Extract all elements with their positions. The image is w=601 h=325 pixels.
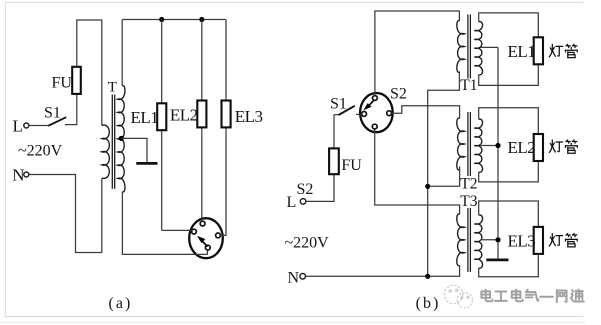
transformer T1 core [467, 15, 469, 79]
ground bar (a) [136, 162, 157, 165]
junction dot T2-bottom (b) [425, 184, 430, 189]
selector contact left (a) [192, 229, 197, 234]
wire T3 secondary bottom to EL3 [479, 254, 539, 277]
wire blade to selector left contact (b) [356, 113, 362, 115]
wire N to T primary bottom (a) [29, 175, 102, 253]
svg-text:N: N [12, 166, 24, 185]
svg-text:T3: T3 [460, 193, 477, 210]
svg-text:(a): (a) [109, 295, 133, 312]
lamp EL1 (b) [534, 37, 543, 64]
junction dot tap T3 (b) [495, 237, 500, 242]
svg-text:FU: FU [52, 75, 73, 92]
junction dot tap T2 (b) [495, 143, 500, 148]
svg-text:EL3: EL3 [235, 107, 263, 126]
transformer T3 core [467, 208, 469, 272]
node L (a) [24, 123, 29, 128]
svg-text:EL2: EL2 [170, 106, 198, 125]
svg-text:FU: FU [341, 157, 362, 174]
svg-text:EL1: EL1 [508, 42, 536, 61]
svg-text:T2: T2 [460, 175, 477, 192]
rotary selector switch SA (b) [360, 93, 393, 132]
wire S1 to FU (a) [65, 20, 102, 125]
lamp EL3 (b) [534, 227, 543, 254]
selector contact left (b) [362, 112, 367, 117]
node N (a) [24, 172, 29, 177]
switch S1 blade (b) [334, 114, 339, 116]
wire T1 secondary tap (b) [481, 46, 499, 48]
selector contact top (b) [373, 96, 378, 101]
wire stubs into selector (b) [374, 93, 376, 96]
svg-text:EL1: EL1 [131, 108, 159, 127]
wire N to T3 primary bottom (b) [306, 265, 460, 276]
fuse FU (a) [72, 67, 81, 94]
switch S1 blade (a) [48, 117, 66, 126]
wire tap to ground (a) [121, 138, 147, 162]
svg-text:~220V: ~220V [18, 143, 63, 160]
selector contact bottom (b) [372, 124, 377, 129]
rotary selector switch SA (a) [189, 218, 223, 258]
wire through fuse + to S1 (b) [333, 115, 335, 175]
wire T1 secondary bottom to EL1 [479, 64, 539, 85]
junction dot bus-EL2 (a) [199, 17, 204, 22]
wire EL1 bottom to selector left contact (a) [162, 229, 192, 231]
transformer T1 primary winding [457, 21, 465, 73]
wire T2 primary bottom to junction (b) [428, 167, 460, 187]
transformer T2 core [467, 112, 469, 176]
wire selector top contact to T1 primary (b) [375, 11, 460, 96]
label lamp-tube EL2 (b) [549, 140, 562, 153]
svg-text:L: L [287, 194, 297, 211]
wire T3 secondary tap (b) [481, 239, 499, 241]
svg-text:S2: S2 [390, 86, 407, 103]
secondary tap dot (a) [119, 136, 124, 141]
svg-text:L: L [13, 117, 23, 136]
junction dot bus-EL1 (a) [159, 17, 164, 22]
wire EL2 riser (a) [201, 20, 203, 222]
transformer T2 primary winding [457, 118, 465, 170]
svg-text:T: T [108, 80, 117, 96]
wire selector right contact (S2) to T2 primary (b) [392, 106, 460, 119]
wire T2 secondary top to EL2 [479, 108, 539, 134]
wire T3 secondary top to EL3 [479, 201, 539, 227]
ground bar (b) [486, 259, 508, 262]
wire EL1 riser (a) [161, 20, 163, 231]
svg-text:T1: T1 [460, 77, 477, 94]
wire L to S1 (a) [29, 125, 48, 127]
wire T2 secondary bottom to EL2 [479, 161, 539, 182]
wire secondary top to bus (a) [121, 20, 123, 87]
lamp EL3 (a) [222, 101, 231, 128]
transformer T3 primary winding [457, 214, 465, 266]
watermark logo [444, 285, 472, 308]
wire secondary bottom to selector (a) [122, 192, 207, 255]
svg-text:~220V: ~220V [285, 234, 330, 251]
lamp EL2 (a) [197, 101, 206, 128]
transformer T3 secondary winding [474, 215, 482, 268]
selector contact right (b) [387, 111, 392, 116]
transformer T1 secondary winding [474, 22, 482, 75]
transformer T primary winding (a) [102, 125, 110, 178]
svg-text:S1: S1 [44, 105, 61, 122]
node N (b) [300, 274, 306, 280]
selector wiper arrow (a) [202, 240, 208, 246]
selector contact right (a) [216, 233, 221, 238]
svg-text:(b): (b) [416, 295, 441, 312]
watermark text 电工电气一网通 [483, 291, 494, 303]
selector wiper arrow (b) [369, 100, 374, 105]
wire tap bus (b) [497, 47, 499, 258]
lamp EL1 (a) [157, 103, 166, 130]
wire T2 secondary tap (b) [481, 145, 499, 147]
svg-text:S2: S2 [297, 181, 314, 198]
selector contact top (a) [200, 221, 205, 226]
transformer T secondary winding (a) [118, 86, 125, 192]
lamp EL2 (b) [534, 134, 543, 161]
node L (b) [300, 199, 306, 205]
wire EL3 riser (a) [220, 20, 226, 236]
svg-text:EL3: EL3 [508, 231, 536, 250]
transformer T2 secondary winding [474, 119, 482, 172]
wire L to FU (b) [306, 174, 334, 201]
label lamp-tube EL1 (b) [549, 44, 562, 57]
svg-text:EL2: EL2 [508, 138, 536, 157]
wire T1 secondary top to EL1 [479, 13, 539, 37]
wire selector bottom contact to T3 primary (b) [375, 129, 460, 214]
wire stubs into selector (a) [201, 217, 203, 221]
label lamp-tube EL3 (b) [549, 234, 562, 247]
svg-text:N: N [288, 270, 300, 287]
wire T1 primary bottom to N line (b) [428, 72, 460, 277]
wire top bus (a) [122, 19, 226, 21]
transformer T core (a) [111, 95, 113, 189]
svg-text:S1: S1 [330, 96, 347, 113]
selector contact bottom (a) [205, 245, 210, 250]
junction dot N line (b) [425, 274, 430, 279]
